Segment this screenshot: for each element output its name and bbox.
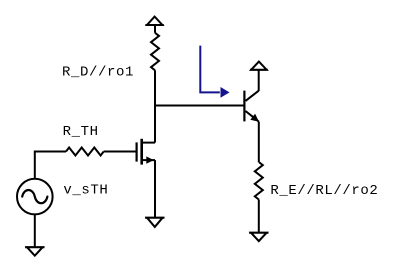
wire collector up (258, 70, 260, 91)
svg-text:v_sTH: v_sTH (63, 182, 108, 198)
ground (under M1 source) (145, 218, 164, 227)
resistor R_D//ro1 (151, 33, 159, 71)
ground (under v_sTH) (25, 247, 44, 256)
transistor M1 (NMOS) (137, 139, 155, 165)
power arrow VDD (collector) (250, 62, 268, 70)
wire emitter down (258, 122, 260, 162)
power arrow VDD (top of R_D) (145, 17, 163, 25)
source v_sTH (17, 179, 53, 215)
svg-text:R_E//RL//ro2: R_E//RL//ro2 (270, 183, 378, 199)
wire source bottom (34, 214, 36, 247)
wire source down (154, 160, 156, 218)
transistor Q1 (BJT NPN) (244, 91, 259, 122)
svg-text:R_D//ro1: R_D//ro1 (62, 65, 134, 81)
current arrow annotation (blue) (200, 46, 229, 98)
wire node drain to base (155, 105, 244, 107)
resistor R_E//RL//ro2 (255, 162, 263, 200)
wire drain column (154, 70, 156, 142)
resistor R_TH (66, 148, 104, 156)
wire VDD to R_D (154, 25, 156, 33)
ground (under R_E) (249, 233, 268, 241)
svg-text:R_TH: R_TH (63, 124, 99, 140)
wire R_TH to gate (104, 151, 136, 153)
wire R_E to ground (258, 200, 260, 233)
wire source top to gate net (35, 152, 66, 179)
